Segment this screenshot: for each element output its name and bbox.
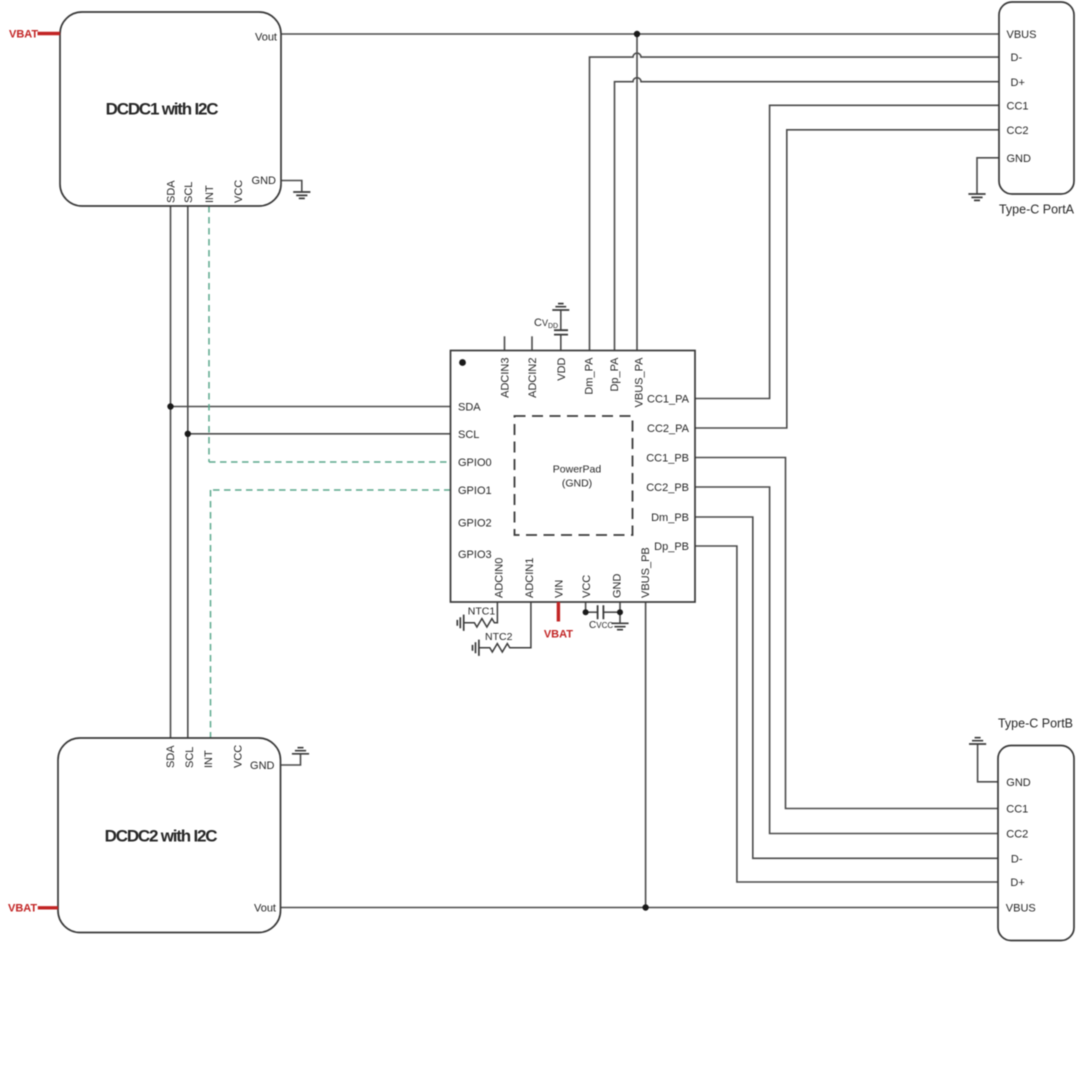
- junction node SDA: [167, 403, 173, 409]
- svg-text:GPIO0: GPIO0: [458, 457, 492, 469]
- svg-text:CC1_PB: CC1_PB: [646, 453, 689, 465]
- wire GPIO1 to INT DCDC2 (dashed): [211, 490, 451, 738]
- capacitor CVDD plates: [554, 330, 568, 334]
- svg-text:CC2_PA: CC2_PA: [647, 423, 690, 435]
- ground below IC GND pin: [611, 623, 628, 629]
- wire Cvcc cap to GND pin: [603, 611, 620, 613]
- wire VBUS bottom (DCDC2 Vout to PortB VBUS): [281, 907, 999, 909]
- svg-text:ADCIN1: ADCIN1: [524, 558, 536, 598]
- svg-text:CC1: CC1: [1006, 804, 1028, 816]
- wire VCC to Cvcc cap: [586, 602, 598, 612]
- svg-text:VBAT: VBAT: [9, 29, 38, 41]
- DCDC2 box: [58, 738, 281, 933]
- svg-text:Vout: Vout: [254, 903, 276, 915]
- svg-text:INT: INT: [204, 185, 216, 203]
- wire VBUS top (DCDC1 Vout to Type-C PortA VBUS): [281, 33, 999, 35]
- svg-text:VBUS_PA: VBUS_PA: [633, 357, 645, 408]
- wire DCDC2 GND: [281, 754, 301, 765]
- svg-text:VBUS: VBUS: [1007, 29, 1037, 41]
- wire SDA to IC: [171, 406, 451, 408]
- wire CVDD cap to ground: [560, 310, 562, 330]
- svg-text:CC2: CC2: [1007, 125, 1029, 137]
- wire Dp_PA to PortA D+ (with hop over VBUS_PA): [615, 78, 1000, 351]
- svg-text:D-: D-: [1011, 52, 1023, 64]
- svg-text:CC2: CC2: [1006, 829, 1028, 841]
- wire SCL to IC: [188, 433, 451, 435]
- pin-1 dot U1: [459, 359, 466, 366]
- svg-text:ADCIN2: ADCIN2: [527, 358, 539, 398]
- svg-text:SCL: SCL: [184, 747, 196, 768]
- wire CC1_PB to PortB CC1: [695, 458, 998, 809]
- svg-text:GND: GND: [1007, 153, 1032, 165]
- wire VDD to CVDD cap: [560, 335, 562, 351]
- wire Dp_PB to PortB D+: [695, 546, 998, 882]
- wire PortA GND: [977, 158, 999, 194]
- svg-text:CC1: CC1: [1007, 100, 1029, 112]
- wire GND pin to ground: [619, 602, 621, 623]
- junction node VBUS_PA: [634, 31, 640, 37]
- DCDC1 box: [60, 12, 281, 206]
- ground PortB GND: [969, 738, 986, 744]
- svg-text:INT: INT: [203, 750, 215, 768]
- ground above CVDD: [552, 304, 569, 310]
- ground DCDC2 GND: [292, 748, 309, 754]
- svg-text:VCC: VCC: [233, 180, 245, 203]
- svg-text:VIN: VIN: [553, 580, 565, 598]
- svg-text:GND: GND: [612, 574, 624, 599]
- PowerPad (GND) pad: [515, 416, 633, 535]
- svg-text:SCL: SCL: [458, 429, 479, 441]
- Type-C PortB box: [998, 746, 1074, 941]
- svg-text:VDD: VDD: [556, 357, 568, 380]
- svg-text:ADCIN0: ADCIN0: [494, 558, 506, 598]
- wire VBUS_PB vertical: [645, 602, 647, 908]
- Type-C PortA box: [999, 2, 1074, 194]
- wire PortB GND: [978, 744, 998, 782]
- svg-text:CC1_PA: CC1_PA: [647, 394, 690, 406]
- svg-text:(GND): (GND): [562, 478, 592, 490]
- wire VBUS_PA vertical: [636, 34, 638, 351]
- VBAT stub VIN: [557, 602, 560, 622]
- wire CC2_PA to PortA CC2: [695, 130, 999, 428]
- junction node GND cap: [617, 609, 623, 615]
- svg-text:VCC: VCC: [233, 745, 245, 768]
- svg-text:GPIO2: GPIO2: [458, 518, 492, 530]
- svg-text:GND: GND: [250, 760, 275, 772]
- svg-text:Type-C PortA: Type-C PortA: [999, 203, 1075, 217]
- svg-text:SDA: SDA: [165, 745, 177, 768]
- svg-text:SDA: SDA: [166, 180, 178, 203]
- svg-text:GND: GND: [252, 175, 277, 187]
- junction node VBUS_PB: [642, 904, 648, 910]
- svg-text:Dm_PB: Dm_PB: [651, 512, 689, 524]
- svg-text:D+: D+: [1010, 877, 1024, 889]
- svg-text:D+: D+: [1011, 77, 1025, 89]
- svg-text:CVCC: CVCC: [589, 620, 613, 631]
- VBAT stub DCDC2: [38, 906, 58, 909]
- wire INT DCDC1 to GPIO0 (dashed): [209, 206, 451, 462]
- resistor NTC1: [464, 602, 497, 627]
- VBAT stub DCDC1: [38, 32, 61, 35]
- svg-text:NTC2: NTC2: [485, 631, 513, 643]
- svg-text:VBUS_PB: VBUS_PB: [640, 547, 652, 598]
- svg-text:GPIO3: GPIO3: [458, 549, 492, 561]
- wire SCL vertical bus: [187, 206, 189, 738]
- wire CC1_PA to PortA CC1: [695, 105, 999, 398]
- svg-text:Dm_PA: Dm_PA: [583, 357, 595, 395]
- wire DCDC1 GND: [281, 181, 302, 193]
- svg-text:DCDC1 with I2C: DCDC1 with I2C: [106, 100, 219, 119]
- svg-text:D-: D-: [1011, 853, 1023, 865]
- IC U1 box: [451, 351, 696, 603]
- junction node SCL: [185, 431, 191, 437]
- wire ADCIN3 stub: [504, 336, 506, 350]
- ground NTC1 (left-facing): [457, 615, 463, 631]
- svg-text:VBAT: VBAT: [8, 903, 37, 915]
- capacitor CVCC plates: [598, 605, 604, 619]
- wire Dm_PA to PortA D- (with hop over VBUS_PA): [590, 53, 1000, 350]
- svg-text:NTC1: NTC1: [468, 606, 496, 618]
- svg-text:SDA: SDA: [458, 402, 481, 414]
- svg-text:GND: GND: [1006, 777, 1031, 789]
- svg-text:VBUS: VBUS: [1006, 903, 1036, 915]
- svg-text:SCL: SCL: [183, 182, 195, 203]
- svg-text:Vout: Vout: [255, 32, 277, 44]
- svg-text:GPIO1: GPIO1: [458, 485, 492, 497]
- wire Dm_PB to PortB D-: [695, 517, 998, 858]
- svg-text:VBAT: VBAT: [544, 629, 573, 641]
- svg-text:Dp_PA: Dp_PA: [609, 357, 621, 392]
- svg-text:VCC: VCC: [581, 575, 593, 598]
- svg-text:ADCIN3: ADCIN3: [500, 358, 512, 398]
- wire SDA vertical bus: [170, 206, 172, 738]
- ground DCDC1 GND: [293, 192, 310, 198]
- wire CC2_PB to PortB CC2: [695, 487, 998, 834]
- svg-text:Dp_PB: Dp_PB: [654, 541, 689, 553]
- svg-text:Type-C PortB: Type-C PortB: [998, 717, 1073, 731]
- svg-text:CC2_PB: CC2_PB: [646, 482, 689, 494]
- junction node VCC cap: [583, 609, 589, 615]
- ground NTC2 (left-facing): [473, 640, 479, 656]
- ground PortA GND: [968, 194, 985, 200]
- svg-text:PowerPad: PowerPad: [553, 464, 602, 476]
- svg-text:DCDC2 with I2C: DCDC2 with I2C: [105, 827, 218, 846]
- resistor NTC2: [480, 602, 531, 652]
- wire ADCIN2 stub: [531, 336, 533, 350]
